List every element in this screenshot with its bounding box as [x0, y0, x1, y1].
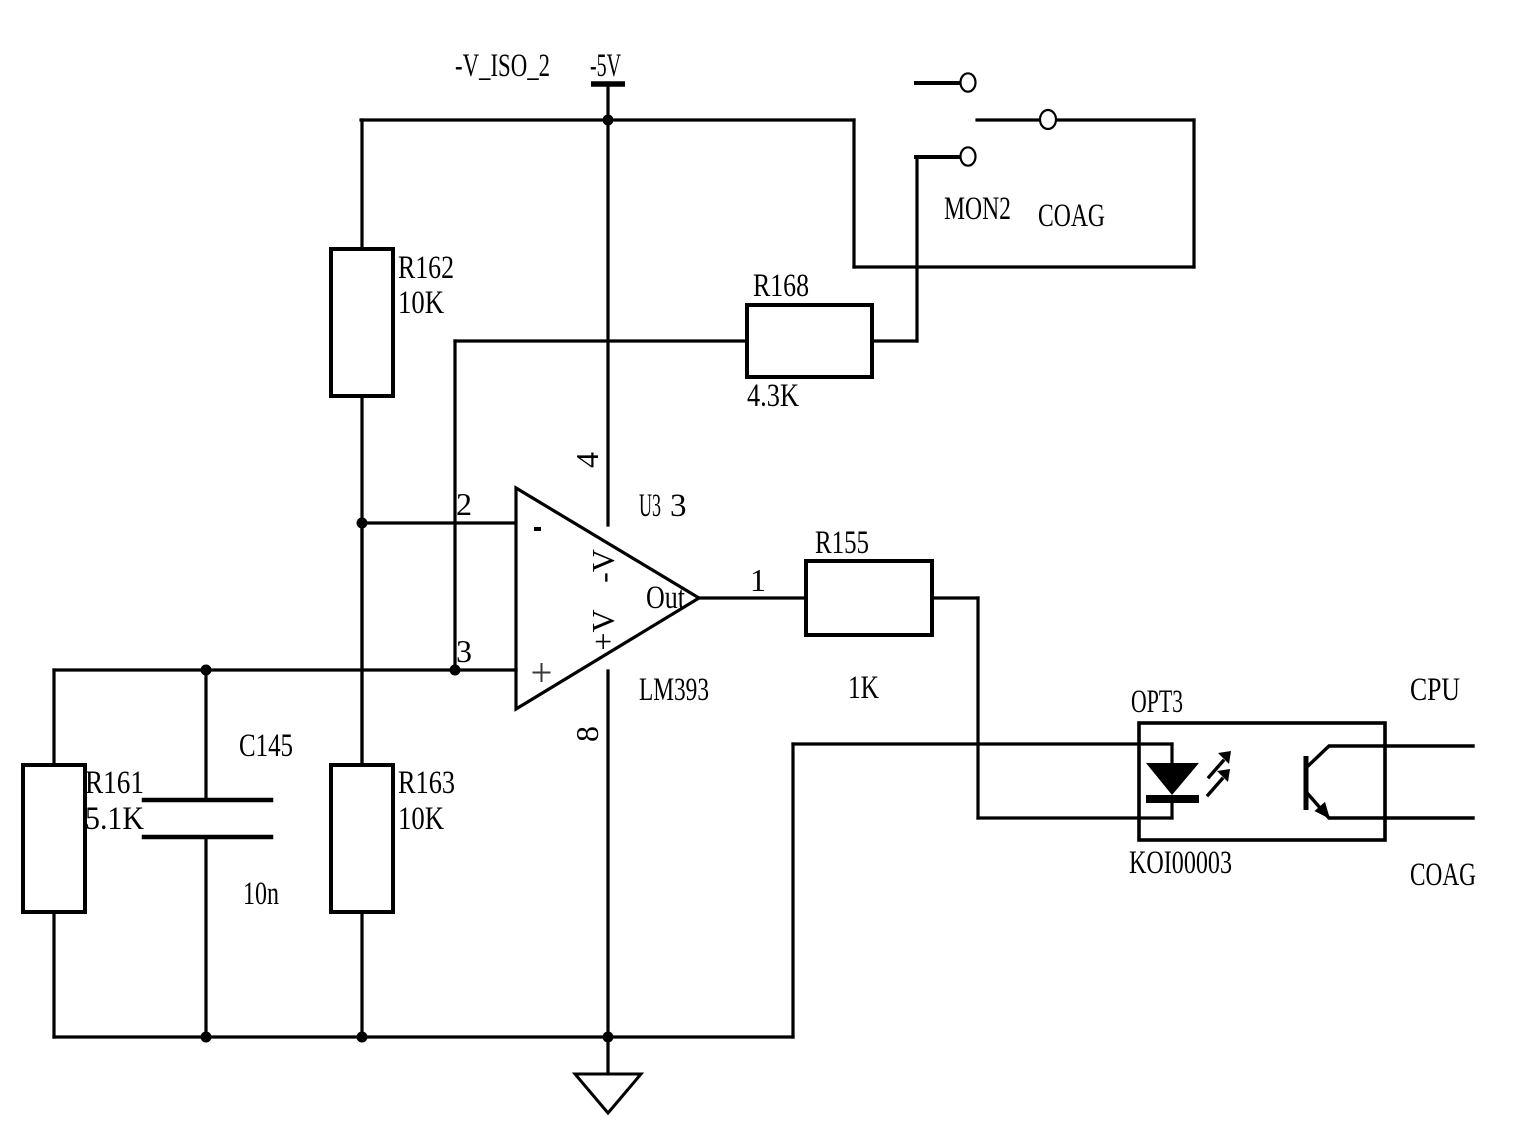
ground symbol stem [606, 1037, 609, 1074]
svg-text:LM393: LM393 [639, 672, 709, 708]
wire: to OPT3 LED cathode [978, 816, 1172, 819]
svg-text:10n: 10n [243, 876, 279, 912]
wire: R168 right lead [872, 339, 917, 342]
switch MON2 upper throw contact circle [961, 73, 976, 91]
svg-text:-5V: -5V [590, 48, 621, 84]
wire: R168 left lead down to pin3 node [453, 341, 456, 670]
wire: op-amp pin 2 [362, 521, 516, 524]
OPT3 transistor emitter arrowhead [1315, 802, 1331, 819]
svg-text:10K: 10K [398, 801, 444, 837]
switch MON2 upper throw stub [916, 81, 960, 85]
resistor R155 [806, 561, 932, 635]
wire: bottom ground rail [54, 1035, 793, 1038]
wire: ground to OPT3 LED anode [793, 742, 1172, 745]
svg-text:3: 3 [456, 633, 472, 669]
wire: R155 down to LED cathode row [976, 598, 979, 818]
wire: switch lower throw down to R168 [915, 157, 918, 341]
switch MON2 lower throw contact circle [961, 147, 976, 165]
svg-text:1: 1 [750, 562, 766, 598]
OPT3 light arrow lower [1208, 769, 1230, 795]
op-amp minus input sign [534, 527, 541, 531]
power symbol -5V bar [591, 84, 625, 120]
wire: pin2 node down to R163 [360, 523, 363, 765]
svg-text:OPT3: OPT3 [1131, 684, 1183, 720]
svg-text:2: 2 [456, 486, 472, 522]
ground symbol triangle [575, 1074, 641, 1113]
junction dot pin3/R168 [450, 665, 461, 676]
svg-text:-V: -V [585, 549, 621, 583]
OPT3 transistor base bar [1304, 756, 1309, 810]
svg-text:4: 4 [569, 452, 605, 468]
svg-text:C145: C145 [239, 728, 293, 764]
OPT3 LED triangle [1146, 763, 1199, 795]
wire: op-amp pin 8 down to ground rail [606, 671, 609, 1037]
capacitor C145 bottom stem [204, 839, 207, 1037]
junction dot C145/ground [201, 1032, 212, 1043]
resistor R168 [747, 305, 872, 377]
svg-text:+V: +V [585, 609, 621, 650]
optocoupler OPT3 box [1139, 723, 1385, 840]
junction dot pin8/ground [603, 1032, 614, 1043]
svg-text:4.3K: 4.3K [747, 378, 799, 414]
svg-text:1K: 1K [848, 670, 879, 706]
svg-text:Out: Out [646, 580, 685, 616]
svg-text:COAG: COAG [1038, 198, 1105, 234]
OPT3 LED cathode bar [1146, 795, 1199, 803]
svg-text:R155: R155 [815, 525, 869, 561]
switch MON2 lower throw stub [916, 155, 960, 159]
op-amp U33 triangle [516, 488, 699, 709]
wire: rail turns down toward switch loop [852, 120, 855, 267]
wire: R163 bottom lead [360, 912, 363, 1037]
OPT3 transistor emitter [1308, 794, 1473, 818]
wire: R168 left lead [455, 339, 747, 342]
svg-text:-V_ISO_2: -V_ISO_2 [455, 48, 550, 84]
resistor R161 [23, 765, 85, 912]
capacitor C145 top stem [204, 670, 207, 798]
wire: op-amp output pin 1 [699, 596, 806, 599]
svg-text:5.1K: 5.1K [85, 801, 144, 837]
wire: op-amp pin3 node horizontal [54, 668, 516, 671]
svg-text:R168: R168 [753, 268, 809, 304]
wire: -5V column to op-amp pin 4 [606, 120, 609, 525]
wire: R161 top lead [52, 670, 55, 765]
svg-text:3: 3 [670, 488, 687, 524]
resistor R162 [331, 249, 393, 396]
wire: switch common contact line [977, 118, 1194, 121]
svg-text:R163: R163 [398, 765, 455, 801]
wire: ground rail up right side [791, 744, 794, 1037]
svg-text:10K: 10K [398, 285, 444, 321]
op-amp plus input sign [534, 664, 550, 681]
junction dot pin2 node [357, 518, 368, 529]
wire: switch loop right side up [1192, 120, 1195, 267]
junction dot at -5V stem and rail [603, 115, 614, 126]
wire: R162 top from rail [360, 120, 363, 249]
switch MON2 common contact circle [1040, 110, 1056, 129]
wire: R163 top lead [360, 523, 363, 765]
wire: switch loop bottom [854, 265, 1194, 268]
svg-text:R161: R161 [85, 765, 144, 801]
svg-text:CPU: CPU [1410, 672, 1460, 708]
wire: R162 bottom to pin2 junction [360, 396, 363, 523]
svg-text:U3: U3 [639, 488, 661, 524]
wire: R155 right lead [932, 596, 978, 599]
wire: R161 bottom lead [52, 912, 55, 1037]
wire: top -5V rail [361, 118, 854, 121]
OPT3 light arrow upper [1209, 751, 1231, 777]
junction dot R163/ground [357, 1032, 368, 1043]
resistor R163 [331, 765, 393, 912]
junction dot pin3/C145 [201, 665, 212, 676]
svg-text:KOI00003: KOI00003 [1129, 845, 1232, 881]
svg-text:COAG: COAG [1410, 857, 1476, 893]
capacitor C145 plates [144, 800, 271, 837]
OPT3 transistor collector [1308, 746, 1473, 766]
OPT3 LED cathode stem [1170, 803, 1173, 818]
OPT3 LED anode stem [1170, 744, 1173, 763]
svg-text:8: 8 [569, 726, 605, 742]
svg-text:MON2: MON2 [944, 191, 1011, 227]
svg-text:R162: R162 [398, 250, 454, 286]
